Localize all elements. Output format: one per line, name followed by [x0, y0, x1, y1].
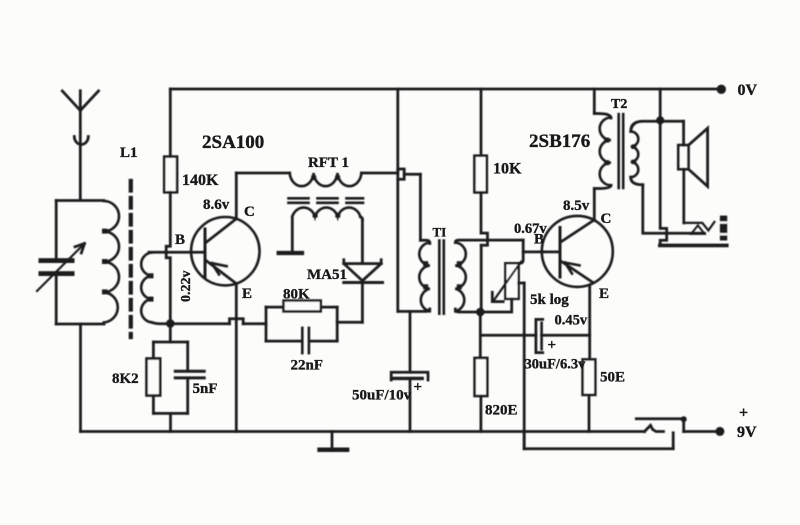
- svg-text:5nF: 5nF: [193, 381, 218, 397]
- svg-text:C: C: [244, 204, 255, 220]
- svg-text:L1: L1: [120, 145, 138, 161]
- svg-text:0.45v: 0.45v: [555, 313, 588, 329]
- svg-text:0V: 0V: [738, 82, 758, 99]
- svg-text:RFT 1: RFT 1: [308, 155, 349, 171]
- svg-text:B: B: [534, 232, 544, 248]
- svg-text:E: E: [242, 286, 252, 302]
- svg-text:8.5v: 8.5v: [563, 198, 590, 214]
- svg-text:8.6v: 8.6v: [203, 197, 230, 213]
- svg-text:50uF/10v: 50uF/10v: [352, 388, 412, 404]
- svg-text:+: +: [739, 405, 748, 422]
- svg-text:MA51: MA51: [307, 267, 347, 283]
- svg-text:+: +: [414, 380, 423, 396]
- svg-text:9V: 9V: [737, 424, 757, 441]
- svg-text:2SB176: 2SB176: [529, 131, 590, 152]
- svg-text:TI: TI: [433, 225, 447, 240]
- svg-text:22nF: 22nF: [291, 358, 324, 374]
- svg-text:C: C: [601, 211, 612, 227]
- svg-text:T2: T2: [611, 97, 627, 112]
- svg-text:+: +: [548, 338, 557, 354]
- svg-text:10K: 10K: [493, 161, 522, 178]
- svg-text:5k log: 5k log: [530, 292, 569, 308]
- svg-text:30uF/6.3v: 30uF/6.3v: [525, 357, 587, 373]
- svg-text:50E: 50E: [600, 370, 625, 386]
- svg-text:E: E: [599, 286, 609, 302]
- svg-text:80K: 80K: [283, 287, 310, 303]
- svg-text:0.22v: 0.22v: [179, 271, 194, 303]
- svg-text:B: B: [175, 232, 185, 248]
- svg-text:8K2: 8K2: [112, 371, 139, 387]
- svg-text:140K: 140K: [182, 172, 219, 189]
- svg-text:820E: 820E: [485, 403, 518, 419]
- svg-text:2SA100: 2SA100: [202, 132, 264, 153]
